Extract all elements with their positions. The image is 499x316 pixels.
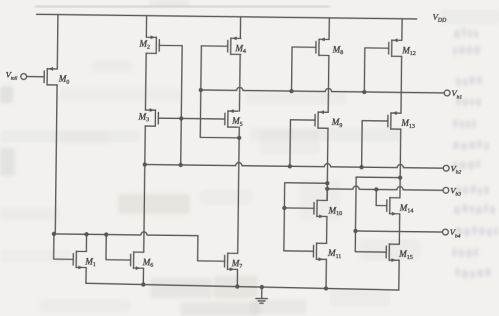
transistor M1 [73, 251, 86, 269]
wire M12 source to VDD rail [401, 19, 403, 41]
transistor M13 [388, 111, 401, 129]
node Vb3 terminal [443, 187, 449, 193]
wire M8 gate vertical [291, 47, 294, 91]
node Vb1 start junction [199, 88, 203, 92]
wire M15 gate vertical [355, 231, 386, 252]
node M13drain-M14drain junction [398, 175, 402, 179]
node Vtail terminal [21, 74, 27, 80]
transistor M9 [315, 110, 328, 128]
transistor M10 label [327, 205, 342, 217]
transistor M5 label [231, 116, 243, 128]
node Vb3-M14gate junction [374, 187, 378, 191]
wire bias line [54, 231, 198, 236]
wire M8 source to VDD rail [328, 18, 330, 40]
wire M11 source to ground [325, 259, 327, 288]
transistor M2 [146, 35, 159, 53]
node M12 gate junction [362, 90, 366, 94]
node Vb3 start junction [325, 187, 329, 191]
node M8 gate junction [289, 89, 293, 93]
wire M15 source to ground [398, 260, 400, 290]
node VDD label [433, 12, 448, 24]
node gate row junction [179, 116, 183, 120]
wire M9 gate vertical [289, 120, 292, 166]
transistor M11 label [327, 248, 342, 260]
wire M6 gate drop [106, 235, 131, 260]
wire M2 source to VDD rail [145, 16, 147, 38]
transistor M4 label [234, 43, 246, 55]
wire M13 gate vertical [361, 121, 364, 167]
transistor M15 [386, 244, 399, 262]
node Vtail label [6, 69, 19, 81]
node bias-M0drain junction [52, 232, 56, 236]
wire M10/M11 gate loop [284, 183, 327, 252]
transistor M14 [387, 197, 400, 215]
wire M2-M3 cascode link [144, 53, 147, 110]
wire M2 gate vertical [181, 46, 182, 165]
wire M13 gate [362, 120, 388, 122]
node gnd-M7 junction [235, 284, 239, 288]
wire M5 drain down to M7 [238, 127, 240, 253]
transistor M9 label [331, 117, 343, 129]
node M5 drain junction [237, 136, 241, 140]
wire M4 gate to M5 drain [200, 136, 239, 138]
transistor M15 label [398, 249, 413, 261]
transistor M8 [316, 37, 329, 55]
wire M12 gate [365, 47, 389, 49]
node Vb1 terminal [444, 90, 450, 96]
wire M9 gate [290, 119, 315, 121]
transistor M6 label [142, 257, 154, 269]
wire M0 source to VDD rail [56, 15, 59, 69]
transistor M11 [313, 243, 326, 261]
node Vb2 label [450, 163, 461, 175]
wire M7 gate drop [198, 236, 225, 262]
node Vb4 terminal [442, 229, 448, 235]
wire Vb4 branch vertical [355, 177, 358, 231]
wire M12 gate vertical [363, 48, 366, 92]
wire M14 drain vertical [399, 178, 401, 198]
ground symbol [256, 298, 268, 303]
node Vb2-M3drain junction [143, 162, 147, 166]
wire M10 gate stub [284, 207, 314, 209]
wire Vb2 line [145, 161, 444, 168]
wire M7 source down [236, 269, 238, 286]
transistor M12 label [401, 45, 416, 57]
transistor M0 [44, 67, 57, 85]
transistor M7 [225, 253, 238, 271]
wire M8-M9 cascode link [327, 55, 330, 112]
transistor M10 [314, 200, 327, 218]
node Vb2-M13gate junction [359, 165, 363, 169]
transistor M3 [145, 108, 158, 126]
wire M0 drain down [55, 85, 57, 234]
wire M4 source to VDD rail [239, 17, 241, 39]
wire M12-M13 cascode link [400, 56, 403, 113]
wire Vb4 line [356, 231, 443, 232]
transistor M5 [225, 109, 238, 127]
wire Vb1 line [201, 87, 444, 93]
transistor M8 label [331, 44, 343, 56]
transistor M7 label [231, 258, 243, 270]
wire M3 drain down to M6 [144, 126, 146, 252]
wire M1 source down [85, 268, 87, 284]
wire M2 gate [159, 44, 182, 46]
node Vb2-M9gate junction [288, 164, 292, 168]
wire M4 gate [201, 45, 227, 47]
wire Vb3 line [327, 186, 443, 191]
wire M13 drain down [399, 129, 402, 177]
node Vb2 terminal [443, 165, 449, 171]
node Vb2-gates junction [179, 163, 183, 167]
wire M6 source down [142, 268, 144, 284]
wire M0 gate [27, 76, 44, 78]
wire VDD rail [37, 14, 417, 19]
wire M10-M11 cascode link [326, 216, 328, 243]
node Vb4 junction [353, 229, 357, 233]
wire M4 gate vertical [200, 46, 201, 137]
transistor M12 [389, 38, 402, 56]
transistor M4 [228, 36, 241, 54]
wire M10 drain from junction [326, 189, 328, 201]
node Vb3 label [450, 185, 461, 197]
node M10 gate junction [282, 206, 286, 210]
transistor M1 label [84, 256, 96, 268]
transistor M6 [131, 252, 144, 270]
wire M14-M15 cascode link [398, 214, 400, 244]
transistor M0 label [58, 74, 70, 86]
node gnd-stub junction [260, 285, 264, 289]
wire M4-M5 cascode link [238, 54, 241, 111]
wire M14 gate vertical [376, 189, 387, 205]
wire M9 source down to M10 [326, 128, 329, 200]
node Vb4 label [450, 227, 461, 239]
wire M3/M5 gate row [158, 117, 224, 120]
transistor M2 label [138, 39, 150, 51]
node Vb1 label [451, 88, 462, 100]
node gnd-M6 junction [141, 282, 145, 286]
wire M1 gate drop [54, 234, 74, 259]
wire M1 drain up [85, 234, 87, 251]
transistor M3 label [137, 112, 149, 124]
transistor M13 label [400, 118, 415, 130]
node bias-M6gate junction [104, 232, 108, 236]
transistor M14 label [399, 203, 414, 215]
wire ground rail [86, 283, 399, 290]
node gnd-M11 junction [324, 286, 328, 290]
wire M14 drain link [356, 176, 400, 179]
node M9source-M10gate junction [325, 181, 329, 185]
node bias-M1drain junction [84, 232, 88, 236]
wire M8 gate [292, 46, 316, 48]
wire ground stub [261, 287, 263, 298]
